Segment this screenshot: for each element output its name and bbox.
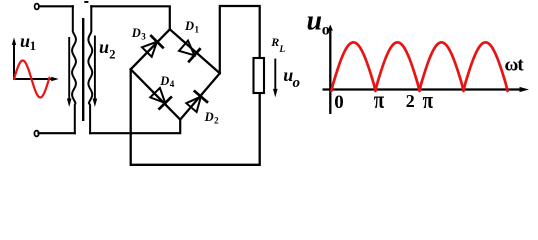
diode bridge diamond [131,29,220,119]
wire right vertex to RL top [220,6,260,73]
uo arrow [274,59,276,89]
rectified waveform [331,42,507,91]
svg-text:D: D [184,19,194,33]
svg-text:1: 1 [30,39,36,53]
u1 sine wave [14,61,49,98]
svg-text:u: u [99,37,109,57]
svg-text:ωt: ωt [505,55,525,76]
diode D4 [150,88,172,110]
svg-text:D: D [204,110,214,124]
svg-text:L: L [278,45,285,55]
svg-text:R: R [270,35,279,49]
wire secondary bottom to bridge [90,120,180,134]
wire left vertex to bottom rail [131,69,260,165]
svg-text:D: D [131,26,141,40]
wire secondary top to bridge [91,6,170,29]
svg-text:0: 0 [334,92,344,113]
svg-text:u: u [307,5,323,36]
svg-text:2: 2 [406,91,415,111]
svg-text:u: u [20,31,30,51]
transformer secondary winding [88,6,92,133]
svg-text:1: 1 [195,24,200,34]
diode D2 [186,91,208,113]
core top tick [84,1,88,3]
transformer primary winding [72,6,76,133]
terminal top [35,4,39,10]
output graph vertical axis [329,30,331,114]
u1 axes [13,43,53,79]
terminal bottom [34,131,38,137]
diode D1 [179,41,201,63]
svg-text:o: o [293,75,301,91]
resistor RL [254,58,265,93]
svg-text:π: π [374,85,384,113]
wire top input [39,5,73,7]
secondary voltage arrow [94,36,96,100]
diode D3 [142,35,164,57]
svg-text:π: π [423,87,433,114]
svg-text:3: 3 [141,31,146,41]
primary current arrow [68,37,70,99]
svg-text:2: 2 [109,48,115,62]
svg-text:4: 4 [170,79,175,89]
output graph horizontal axis [323,88,521,90]
svg-text:2: 2 [214,116,219,126]
svg-text:D: D [159,74,169,88]
wire bottom input [39,132,75,134]
transformer core [82,18,84,121]
svg-text:o: o [322,22,330,39]
